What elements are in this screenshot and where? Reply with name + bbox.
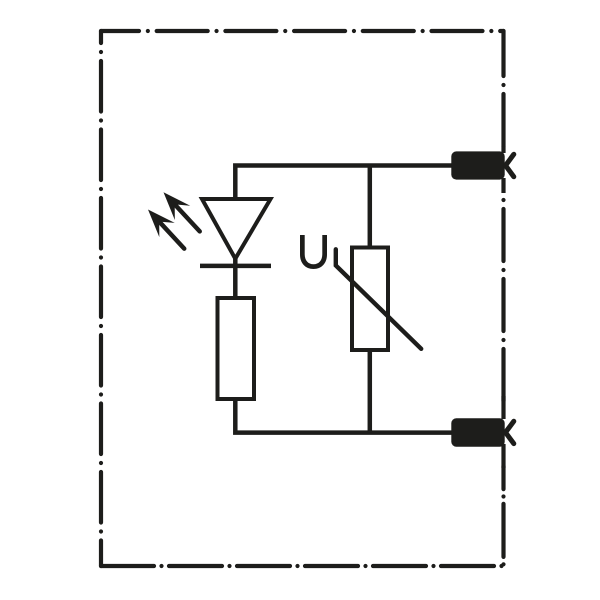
- resistor R1: [218, 298, 255, 399]
- terminal X1 plug contact arrow: [506, 154, 514, 176]
- wire: top rail from LED anode to terminal X1: [235, 166, 451, 202]
- varistor RU1 body: [352, 248, 388, 351]
- LED D1 triangle: [202, 199, 271, 259]
- wire: right bus solid above terminal X1: [501, 146, 505, 153]
- varistor RU1 diagonal stroke: [336, 249, 421, 348]
- LED D1 cathode bar: [200, 264, 271, 269]
- LED D1 light arrow 2: [140, 202, 192, 255]
- enclosure border right middle (dash-dot): [501, 196, 505, 404]
- wire: right bus solid above terminal X2: [501, 396, 505, 419]
- terminal X2 body: [451, 418, 504, 446]
- wire: right bus solid below terminal X2: [501, 444, 505, 468]
- enclosure border bottom (dash-dot): [101, 564, 505, 568]
- terminal X2 plug contact arrow: [506, 421, 514, 443]
- wire: right bus solid below terminal X1: [501, 178, 505, 193]
- wire: bottom rail from resistor R1 to terminal X2: [235, 397, 451, 433]
- varistor voltage label U: [300, 235, 327, 269]
- terminal X1 body: [451, 151, 504, 179]
- wire: LED cathode to resistor R1: [233, 257, 238, 299]
- LED D1 light arrow 1: [156, 185, 208, 238]
- enclosure border left (dash-dot): [99, 31, 103, 566]
- wire: varistor top lead: [368, 166, 373, 250]
- enclosure border top (dash-dot): [101, 29, 504, 33]
- enclosure border right lower (dash-dot): [501, 466, 505, 566]
- enclosure border right upper (dash-dot): [501, 31, 505, 152]
- wire: varistor bottom lead: [368, 348, 373, 433]
